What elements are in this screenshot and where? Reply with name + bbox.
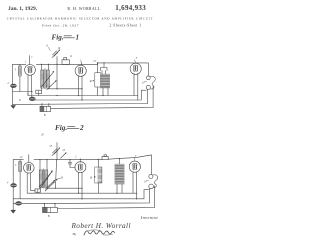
figure 1 caption (52, 33, 80, 41)
capacitor C3' grid (68, 162, 71, 164)
wire R1 leads (97, 63, 99, 96)
resistor R2 grid leak (19, 66, 22, 76)
transformer T1' core (42, 169, 45, 189)
wire B plus lead (51, 87, 154, 109)
ground (fig2) (10, 210, 16, 214)
wire left link (fig2) (31, 190, 35, 192)
figure 2 caption (55, 124, 84, 132)
meter M2' (16, 202, 22, 206)
wire tube V2' legs (79, 172, 82, 199)
junction dots fig1 (19, 62, 104, 104)
tube V2' (75, 162, 86, 173)
transformer T1 primary (41, 70, 44, 88)
battery B1 (40, 106, 51, 111)
junction dots fig2 (39, 158, 137, 204)
wire T1 leads (42, 64, 49, 90)
tube V1' (24, 163, 35, 174)
wire tube V3 legs (134, 74, 138, 100)
svg-text:B: B (48, 215, 50, 218)
label R' (94, 176, 96, 178)
wire battery leads (fig2) (45, 204, 56, 208)
transformer T1 core (44, 69, 47, 89)
wire rail right section (fig2) (108, 155, 151, 174)
wire grid rail left (fig2) (13, 159, 23, 161)
wire R1' leads (97, 159, 99, 193)
wire tank vertical (56, 64, 58, 88)
meter M2 (29, 97, 35, 101)
phone jack J1' (149, 174, 153, 178)
wire grid cap lead (fig2) (28, 155, 30, 163)
wire bottom rail 2 (32, 90, 146, 100)
wire tank vertical (fig2) (55, 160, 56, 189)
tuning arrow T1b' (45, 180, 54, 189)
wire tube V1' legs (27, 173, 31, 193)
tuning arrow T1' (40, 171, 52, 189)
wire jack bottom lead (fig2) (148, 189, 151, 203)
choke L1 (100, 74, 110, 88)
svg-text:2: 2 (79, 124, 84, 132)
tube V3' (129, 161, 140, 172)
capacitor C2' variable (61, 153, 67, 158)
tap arrow (fig2) (56, 178, 60, 179)
transformer T1' secondary (45, 170, 48, 188)
wire tube V3' legs (133, 172, 137, 199)
wire battery leads (42, 104, 49, 106)
wire main top rail (fig2) (34, 159, 102, 161)
battery B1' (43, 207, 58, 212)
signature attorney (84, 231, 115, 235)
wire bottom rail 3 (fig2) (13, 202, 149, 205)
meter M1 (11, 84, 17, 88)
wire bottom rail 2 (fig2) (13, 190, 149, 199)
wire bottom rail 3 (13, 103, 148, 106)
tuning arrow T1b' (45, 182, 54, 191)
tuning arrow T1b (47, 81, 56, 90)
svg-text:R. H. WORRALL: R. H. WORRALL (67, 6, 100, 11)
battery C bias' (35, 189, 41, 192)
tube V3 (130, 63, 141, 74)
phone jack J1 (146, 76, 150, 80)
svg-text:Jan. 1, 1929.: Jan. 1, 1929. (8, 6, 38, 12)
wire tube V2 legs (79, 76, 83, 100)
tube V2 (75, 65, 86, 76)
svg-text:CRYSTAL CALIBRATOR HARMONIC SE: CRYSTAL CALIBRATOR HARMONIC SELECTOR AND… (7, 17, 153, 21)
wire left vertical drop (fig2) (12, 160, 14, 210)
crystal Y1 (62, 60, 69, 65)
wire B plus lead (fig2) (57, 186, 154, 209)
resistor R1' (95, 167, 102, 183)
transformer T1' primary (39, 170, 42, 188)
capacitor C4 staple (101, 67, 107, 70)
svg-text:Inventor: Inventor (140, 215, 159, 220)
wire main top rail (36, 63, 148, 76)
ground (10, 105, 16, 109)
svg-text:2 Sheets-Sheet 1: 2 Sheets-Sheet 1 (110, 24, 142, 28)
svg-text:R: R (89, 79, 92, 83)
resistor R1 (95, 73, 101, 87)
crystal Y1' (102, 156, 108, 159)
transformer T1 secondary (46, 70, 49, 88)
wire grid leak leads (19, 64, 21, 91)
wire L1 leads (102, 63, 108, 96)
resistor R2' grid leak (19, 162, 22, 172)
svg-text:B: B (44, 114, 46, 117)
wire T1' leads (40, 160, 47, 189)
wire grid rail left (13, 63, 26, 65)
wire tube V1 legs (28, 75, 32, 96)
wire antenna vertical (56, 143, 58, 160)
wire jack bottom lead (146, 89, 149, 103)
svg-text:Fig.: Fig. (55, 124, 67, 132)
wire C3' leads (70, 160, 75, 168)
wire left vertical drop (12, 64, 14, 105)
svg-text:Robert H. Worrall: Robert H. Worrall (71, 222, 131, 230)
choke L1' (115, 164, 124, 184)
tuning arrow T1' (40, 171, 52, 186)
wire bottom rail 1 (28, 95, 138, 97)
tuning arrow T1 (41, 72, 53, 87)
svg-text:1,694,933: 1,694,933 (115, 4, 146, 12)
wire L1' leads (117, 159, 122, 194)
svg-text:Fig.: Fig. (52, 33, 64, 41)
capacitor C1 variable (53, 51, 58, 56)
tube V1 (25, 65, 36, 76)
wire T1' bottom link (47, 187, 82, 189)
wire bottom rail 1 (fig2) (27, 192, 137, 194)
svg-text:R: R (89, 175, 92, 179)
wire left link (13, 92, 32, 98)
wire grid cap lead (29, 56, 31, 65)
svg-text:By: By (73, 232, 77, 236)
battery C bias (36, 90, 42, 93)
wire grid leak leads (fig2) (19, 160, 21, 199)
capacitor C1' variable (53, 149, 58, 154)
wire T1 bottom link (49, 88, 83, 90)
svg-text:1: 1 (76, 33, 80, 41)
meter M1' (11, 184, 17, 188)
